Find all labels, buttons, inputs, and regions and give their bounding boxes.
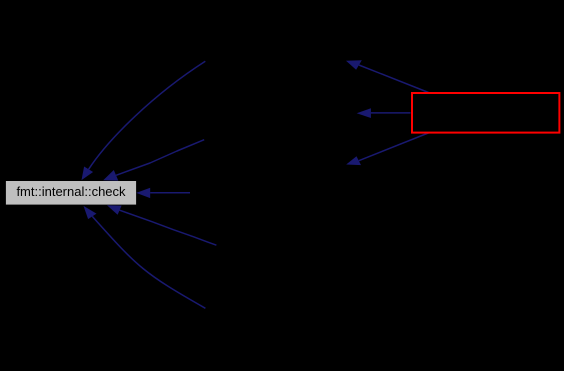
edge E3 horizontal line: [150, 192, 190, 194]
edge E5 curve from bottom caller: [92, 216, 205, 308]
arrowhead E5: [84, 206, 97, 219]
node label fmt::internal::check: [6, 181, 136, 205]
arrowhead E4: [107, 205, 122, 215]
edge A1 from red node to top caller: [359, 65, 429, 93]
arrowhead A3: [346, 156, 361, 165]
edge E1 curve from top caller node to check: [89, 61, 206, 169]
edge E2 line: [116, 140, 204, 176]
arrowhead A1: [346, 60, 362, 69]
arrowhead E2: [103, 170, 118, 181]
arrowhead E3: [136, 188, 150, 198]
red highlighted caller node (label invisible on black): [412, 93, 559, 133]
edge A2 horizontal from red node: [371, 112, 411, 114]
gray current node box: [6, 181, 136, 205]
arrowhead A2: [357, 108, 371, 118]
edge A3 from red node to third caller: [359, 133, 430, 161]
arrowhead E1: [82, 167, 94, 181]
edge E4 line from lower caller: [120, 210, 217, 245]
